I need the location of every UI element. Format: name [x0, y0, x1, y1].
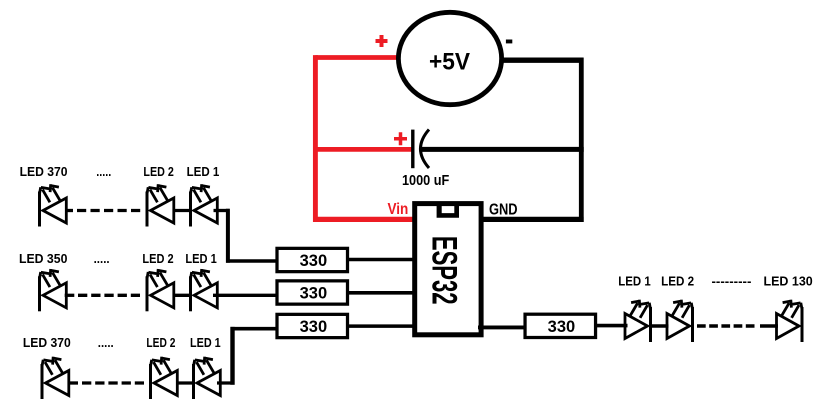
svg-text:Vin: Vin — [388, 201, 409, 218]
svg-text:LED 2: LED 2 — [142, 252, 173, 266]
svg-text:1000 uF: 1000 uF — [402, 172, 449, 189]
svg-text:.....: ..... — [94, 252, 110, 266]
svg-text:LED 1: LED 1 — [185, 252, 216, 266]
svg-text:LED 2: LED 2 — [661, 275, 694, 289]
svg-text:LED 350: LED 350 — [19, 252, 67, 266]
svg-text:LED 1: LED 1 — [190, 336, 221, 350]
svg-text:LED 1: LED 1 — [187, 165, 220, 179]
svg-text:GND: GND — [489, 202, 518, 219]
svg-text:LED 2: LED 2 — [143, 165, 173, 179]
svg-text:LED 130: LED 130 — [764, 275, 813, 289]
svg-text:+5V: +5V — [429, 49, 470, 76]
svg-text:---------: --------- — [712, 275, 752, 289]
svg-text:LED 1: LED 1 — [618, 275, 650, 289]
svg-text:LED 370: LED 370 — [20, 165, 68, 179]
svg-text:.....: ..... — [96, 165, 111, 179]
svg-text:.....: ..... — [98, 336, 114, 350]
svg-text:ESP32: ESP32 — [424, 236, 463, 305]
svg-text:LED 2: LED 2 — [146, 336, 175, 350]
svg-text:LED 370: LED 370 — [23, 336, 71, 350]
